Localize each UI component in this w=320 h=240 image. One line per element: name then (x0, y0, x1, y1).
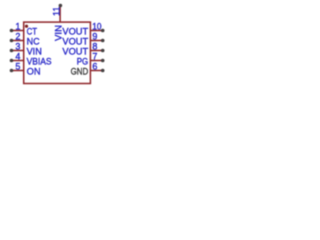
svg-text:5: 5 (15, 62, 20, 72)
pin-1 marker dot (25, 25, 28, 28)
pin 1 endpoint (10, 29, 14, 33)
pin 10 endpoint (101, 29, 105, 33)
svg-text:6: 6 (92, 62, 97, 72)
svg-text:ON: ON (27, 67, 41, 78)
pin 2 wire (12, 40, 24, 42)
svg-text:11: 11 (52, 7, 62, 16)
svg-text:1: 1 (15, 22, 20, 32)
svg-text:GND: GND (71, 67, 89, 78)
pin 11 wire (top) (59, 6, 61, 22)
pin 10 wire (90, 30, 102, 32)
pin 3 endpoint (10, 49, 14, 53)
pin 3 wire (12, 50, 24, 52)
svg-text:3: 3 (15, 42, 20, 52)
svg-text:10: 10 (92, 22, 101, 32)
svg-text:9: 9 (92, 32, 97, 42)
body U1 (24, 22, 91, 83)
pin 5 endpoint (10, 69, 14, 73)
IC symbol schematic 114x92 (0, 0, 114, 92)
pin 8 endpoint (101, 49, 105, 53)
svg-text:2: 2 (15, 32, 20, 42)
pin 7 endpoint (101, 59, 105, 63)
pin 4 wire (12, 60, 24, 62)
pin 9 wire (90, 40, 102, 42)
svg-text:VIN: VIN (54, 25, 65, 41)
pin 11 endpoint (59, 4, 63, 8)
pin 7 wire (90, 60, 102, 62)
pin 9 endpoint (101, 39, 105, 43)
pin 8 wire (90, 50, 102, 52)
pin 6 wire (90, 70, 102, 72)
pin 2 endpoint (10, 39, 14, 43)
pin 5 wire (12, 70, 24, 72)
svg-text:8: 8 (92, 42, 97, 52)
pin 1 wire (12, 30, 24, 32)
pin 6 endpoint (101, 69, 105, 73)
svg-text:7: 7 (92, 52, 97, 62)
svg-text:4: 4 (15, 52, 20, 62)
pin 4 endpoint (10, 59, 14, 63)
